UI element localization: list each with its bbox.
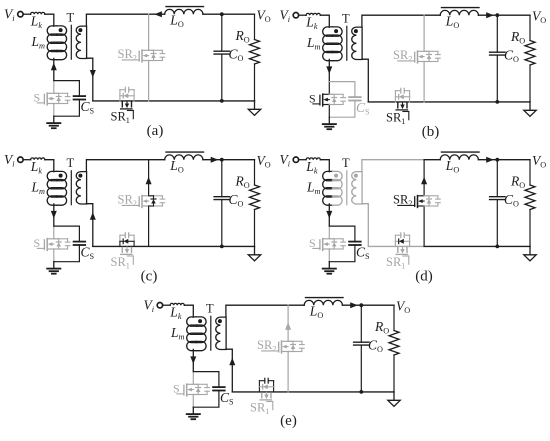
capacitor Co branch lower wire (a) — [221, 54, 223, 101]
wire Lk to transformer primary (a) — [45, 14, 54, 26]
ground (secondary side) (b) — [529, 102, 531, 110]
capacitor Co branch upper wire (d) — [496, 160, 498, 197]
svg-text:S: S — [173, 382, 180, 396]
input terminal Vi (c) — [18, 157, 23, 162]
wire Lo to output node (c) — [203, 159, 255, 161]
svg-text:T: T — [342, 12, 350, 26]
wire secondary top lead (c) — [86, 160, 148, 172]
wire top to output inductor (a) — [149, 13, 165, 15]
wire bottom bus (a) — [93, 100, 255, 102]
junction node top of Co (b) — [495, 13, 499, 17]
svg-text:S: S — [34, 236, 41, 250]
output inductor Lo core bar (e) — [306, 297, 344, 299]
ground (primary side) (e) — [192, 407, 194, 413]
wire bottom bus (e) — [232, 391, 394, 393]
transformer T secondary winding (d) — [352, 172, 362, 204]
svg-text:T: T — [342, 156, 350, 170]
capacitor Co branch lower wire (c) — [221, 200, 223, 247]
input terminal Vi (d) — [293, 157, 298, 162]
wire primary bottom lead (d) — [328, 204, 330, 226]
junction node top of Co (e) — [359, 303, 363, 307]
wire primary bottom lead (c) — [53, 204, 55, 226]
secondary polarity dot (e) — [218, 319, 222, 323]
wire Cs branch lower (b) — [329, 101, 355, 118]
synchronous rectifier SR2 (c) — [141, 196, 143, 199]
transformer T primary winding Lm (c) — [47, 171, 57, 180]
wire clamp branch vertical through switch S (a) — [53, 81, 55, 94]
primary polarity dot (d) — [334, 174, 338, 178]
ground (secondary side) (c) — [254, 246, 256, 254]
wire Lk to transformer primary (c) — [45, 160, 54, 172]
wire clamp top (c) — [54, 225, 80, 227]
primary polarity dot (c) — [59, 174, 63, 178]
wire clamp branch vertical through switch S (c) — [53, 226, 55, 239]
inductor Lk (e) — [170, 303, 184, 305]
synchronous rectifier SR2 (d) — [417, 196, 419, 199]
current arrow on primary lead (d) — [326, 211, 332, 219]
current arrow on top rail (right) (b) — [486, 12, 494, 18]
ground (secondary side) (d) — [529, 246, 531, 254]
transformer core (d) — [346, 171, 348, 205]
wire SR2 branch (c) — [148, 160, 150, 196]
wire secondary bottom lead (a) — [86, 58, 92, 101]
ground (primary side) (c) — [53, 262, 55, 268]
wire Lo to output node (b) — [478, 14, 530, 16]
current arrow secondary return (up) (e) — [229, 358, 235, 366]
primary polarity dot (b) — [334, 29, 338, 33]
wire Cs branch upper (c) — [78, 226, 80, 242]
output inductor Lo core bar (b) — [442, 7, 480, 9]
capacitor Cs (b) — [349, 96, 361, 98]
svg-text:(b): (b) — [422, 124, 440, 140]
transformer core (c) — [70, 171, 72, 205]
current arrow on SR2 branch (c) — [146, 177, 152, 185]
capacitor Co branch upper wire (c) — [221, 160, 223, 197]
wire Cs branch upper (d) — [354, 226, 356, 242]
transformer T secondary winding (e) — [216, 317, 226, 349]
wire primary bottom lead (e) — [192, 349, 194, 371]
wire Cs branch lower (e) — [193, 391, 219, 408]
wire clamp branch vertical through switch S (b) — [328, 82, 330, 95]
wire Lk to transformer primary (e) — [184, 305, 193, 317]
wire SR2 branch (e) — [287, 305, 289, 341]
current arrow on top rail (right) (d) — [486, 157, 494, 163]
transformer T secondary winding (c) — [76, 172, 86, 204]
wire Lo to output node (a) — [203, 13, 255, 15]
svg-text:S: S — [34, 91, 41, 105]
wire Cs branch lower (a) — [54, 100, 80, 117]
output inductor Lo core bar (a) — [166, 6, 204, 8]
secondary polarity dot (c) — [78, 174, 82, 178]
switch S (d) — [322, 239, 324, 242]
output inductor Lo (d) — [440, 155, 478, 160]
switch S (c) — [46, 239, 48, 242]
switch S (b) — [322, 94, 324, 97]
wire bottom bus left (grey) (d) — [368, 245, 424, 247]
capacitor Co (e) — [354, 341, 369, 343]
svg-text:T: T — [67, 156, 75, 170]
current arrow on primary lead (b) — [326, 66, 332, 74]
wire SR2 branch (b) — [423, 15, 425, 51]
wire secondary top lead (a) — [86, 14, 148, 26]
wire secondary bottom lead (d) — [362, 204, 368, 247]
svg-text:(d): (d) — [415, 269, 433, 285]
wire output right rail upper (e) — [393, 305, 395, 330]
wire clamp top (d) — [329, 225, 355, 227]
synchronous rectifier SR1 (a) — [119, 96, 121, 101]
current arrow on SR2 branch (d) — [421, 177, 427, 185]
svg-text:S: S — [309, 236, 316, 250]
wire output right rail upper (a) — [254, 14, 256, 39]
wire Vi to Lk (d) — [299, 159, 306, 161]
synchronous rectifier SR1 (b) — [394, 97, 396, 102]
wire top to output inductor (c) — [149, 159, 165, 161]
output inductor Lo (c) — [165, 155, 203, 160]
wire top to output inductor (d) — [424, 159, 440, 161]
wire secondary bottom lead (c) — [86, 204, 92, 247]
wire clamp top (e) — [193, 371, 219, 373]
current arrow on primary lead (e) — [190, 356, 196, 364]
transformer T primary winding Lm (e) — [187, 317, 197, 326]
wire output right rail upper (c) — [254, 160, 256, 185]
capacitor Cs (c) — [74, 241, 86, 243]
capacitor Co (b) — [490, 51, 505, 53]
wire bottom bus right (d) — [424, 245, 530, 247]
junction node bottom of Co (a) — [220, 99, 224, 103]
svg-text:S: S — [309, 92, 316, 106]
capacitor Co branch lower wire (e) — [360, 345, 362, 392]
wire Lk to transformer primary (b) — [320, 15, 329, 27]
transformer T secondary winding (b) — [352, 27, 362, 59]
transformer T primary winding Lm (b) — [323, 27, 333, 36]
wire output right rail lower (a) — [254, 64, 256, 101]
wire Cs branch upper (e) — [218, 372, 220, 388]
capacitor Co (a) — [214, 50, 229, 52]
svg-text:T: T — [67, 11, 75, 25]
wire Cs branch lower (d) — [329, 245, 355, 262]
wire Lk to transformer primary (d) — [320, 160, 329, 172]
output inductor Lo (e) — [304, 300, 342, 305]
ground (secondary side) (e) — [393, 392, 395, 400]
svg-text:(c): (c) — [141, 269, 158, 285]
wire secondary top lead (b) — [362, 15, 424, 27]
junction node top of Co (d) — [495, 158, 499, 162]
wire output right rail upper (d) — [529, 160, 531, 185]
wire top to output inductor (e) — [288, 304, 304, 306]
wire Cs branch upper (a) — [78, 81, 80, 97]
secondary polarity dot (b) — [354, 29, 358, 33]
wire clamp top (b) — [329, 81, 355, 83]
capacitor Cs (a) — [74, 95, 86, 97]
wire Lo to output node (d) — [478, 159, 530, 161]
synchronous rectifier SR2 (b) — [417, 51, 419, 54]
ground (primary side) (a) — [53, 116, 55, 122]
wire Vi to Lk (a) — [23, 13, 30, 15]
wire clamp branch vertical through switch S (e) — [192, 372, 194, 385]
capacitor Co branch lower wire (b) — [496, 55, 498, 102]
inductor Lk (c) — [31, 158, 45, 160]
capacitor Co (c) — [214, 196, 229, 198]
transformer T secondary winding (a) — [76, 26, 86, 58]
wire secondary top lead (d) — [362, 160, 424, 172]
secondary polarity dot (a) — [78, 28, 82, 32]
wire clamp top (a) — [54, 80, 80, 82]
wire Vi to Lk (c) — [23, 159, 30, 161]
wire Cs branch lower (c) — [54, 245, 80, 262]
current arrow on top rail (right) (c) — [211, 157, 219, 163]
transformer T primary winding Lm (d) — [323, 171, 333, 180]
resistor Ro (a) — [250, 40, 260, 65]
output inductor Lo core bar (c) — [166, 151, 204, 153]
svg-text:(e): (e) — [280, 413, 297, 429]
junction node bottom of Co (e) — [359, 390, 363, 394]
wire clamp branch vertical through switch S (d) — [328, 226, 330, 239]
wire primary bottom lead (a) — [53, 58, 55, 80]
secondary polarity dot (d) — [354, 174, 358, 178]
current arrow on top rail (left) (a) — [154, 11, 162, 17]
capacitor Co branch lower wire (d) — [496, 200, 498, 247]
wire secondary top lead (e) — [226, 305, 288, 317]
output inductor Lo (a) — [165, 9, 203, 14]
capacitor Co branch upper wire (e) — [360, 305, 362, 342]
synchronous rectifier SR2 (a) — [141, 50, 143, 53]
synchronous rectifier SR1 (e) — [258, 387, 260, 392]
current arrow on primary lead (a) — [51, 63, 57, 71]
wire secondary bottom lead (b) — [362, 59, 368, 102]
ground (primary side) (d) — [328, 262, 330, 268]
synchronous rectifier SR1 (d) — [394, 241, 396, 246]
wire bottom bus (c) — [93, 245, 255, 247]
ground (primary side) (b) — [328, 117, 330, 123]
svg-text:(a): (a) — [147, 123, 164, 139]
junction node bottom of Co (b) — [495, 100, 499, 104]
wire output right rail upper (b) — [529, 15, 531, 40]
resistor Ro (d) — [525, 185, 535, 210]
junction node bottom of Co (c) — [220, 245, 224, 249]
wire output right rail lower (b) — [529, 65, 531, 102]
wire top to output inductor (b) — [424, 14, 440, 16]
resistor Ro (c) — [250, 185, 260, 210]
wire Vi to Lk (b) — [299, 14, 306, 16]
resistor Ro (b) — [525, 41, 535, 66]
wire SR2 branch (a) — [148, 14, 150, 50]
input terminal Vi (b) — [293, 13, 298, 18]
primary polarity dot (e) — [198, 319, 202, 323]
junction node top of Co (c) — [220, 158, 224, 162]
inductor Lk (d) — [306, 158, 320, 160]
svg-text:T: T — [206, 302, 214, 316]
capacitor Cs (d) — [349, 241, 361, 243]
wire Vi to Lk (e) — [163, 304, 170, 306]
inductor Lk (b) — [306, 13, 320, 15]
junction node top of Co (a) — [220, 12, 224, 16]
wire secondary bottom lead (e) — [226, 349, 232, 392]
transformer T primary winding Lm (a) — [47, 26, 57, 35]
switch S (a) — [46, 93, 48, 96]
output inductor Lo core bar (d) — [442, 151, 480, 153]
switch S (e) — [186, 384, 188, 387]
wire output right rail lower (c) — [254, 210, 256, 247]
primary polarity dot (a) — [59, 28, 63, 32]
capacitor Co (d) — [490, 196, 505, 198]
junction node bottom of Co (d) — [495, 245, 499, 249]
wire output right rail lower (e) — [393, 355, 395, 392]
wire output right rail lower (d) — [529, 210, 531, 247]
inductor Lk (a) — [31, 12, 45, 14]
wire SR2 branch (d) — [423, 160, 425, 196]
output inductor Lo (b) — [440, 10, 478, 15]
transformer core (b) — [346, 26, 348, 60]
transformer core (a) — [70, 25, 72, 59]
transformer core (e) — [210, 316, 212, 350]
input terminal Vi (e) — [157, 303, 162, 308]
current arrow on top rail (right) (e) — [350, 302, 358, 308]
input terminal Vi (a) — [18, 12, 23, 17]
wire Lo to output node (e) — [342, 304, 394, 306]
capacitor Co branch upper wire (a) — [221, 14, 223, 51]
synchronous rectifier SR2 (e) — [281, 341, 283, 344]
wire Cs branch upper (b) — [354, 82, 356, 98]
wire primary bottom lead (b) — [328, 59, 330, 81]
capacitor Co branch upper wire (b) — [496, 15, 498, 52]
current arrow on SR2 branch (e) — [285, 322, 291, 330]
wire bottom bus (b) — [368, 101, 530, 103]
synchronous rectifier SR1 (c) — [119, 241, 121, 246]
current arrow secondary return (up) (c) — [90, 212, 96, 220]
current arrow on primary lead (c) — [51, 211, 57, 219]
ground (secondary side) (a) — [254, 101, 256, 109]
current arrow secondary return (down) (a) — [90, 70, 96, 78]
resistor Ro (e) — [389, 331, 399, 356]
capacitor Cs (e) — [213, 386, 225, 388]
